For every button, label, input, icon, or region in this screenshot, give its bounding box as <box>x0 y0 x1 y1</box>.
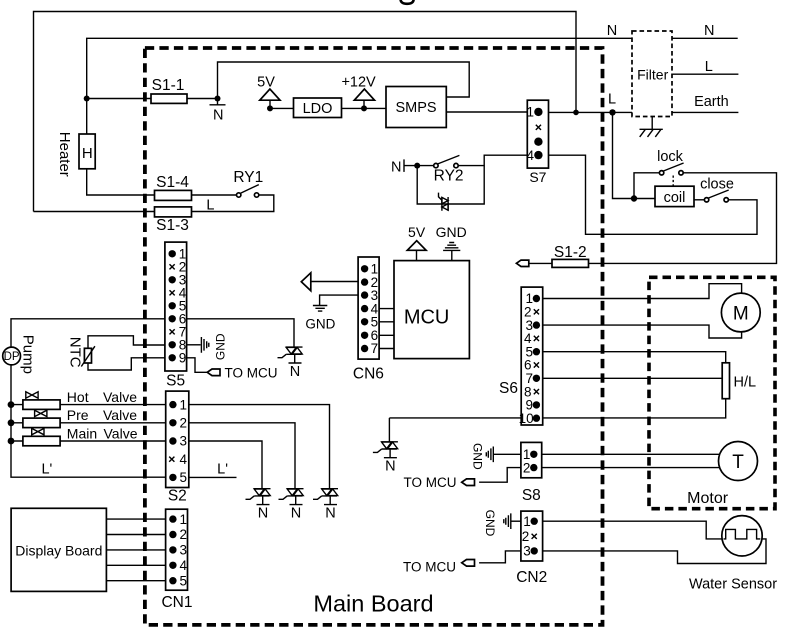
wire S1-2 to tag <box>529 262 552 264</box>
svg-text:L': L' <box>217 461 228 477</box>
svg-text:N: N <box>325 505 335 521</box>
wire CN6 pin3 to ground <box>320 295 359 305</box>
wire hot valve line <box>11 404 166 406</box>
ground at CN2 pin1 (rotated) <box>504 513 521 529</box>
svg-text:1: 1 <box>180 397 188 412</box>
svg-text:Main Board: Main Board <box>313 591 433 617</box>
wire CN2 pin3 to water sensor right <box>543 539 766 564</box>
svg-text:Pump: Pump <box>20 335 37 374</box>
fuse S1-4 <box>155 190 192 200</box>
wire lock branch <box>634 173 660 199</box>
svg-text:3: 3 <box>523 544 531 559</box>
svg-text:Earth: Earth <box>694 94 729 110</box>
pre valve symbol <box>35 410 47 416</box>
node RY2 junction <box>414 163 420 169</box>
switch close contacts and lever <box>704 198 708 202</box>
node valve junction 1 <box>8 401 15 408</box>
svg-text:9: 9 <box>179 351 187 366</box>
wire N out right <box>672 37 738 39</box>
svg-text:M: M <box>733 304 749 325</box>
svg-text:2: 2 <box>522 529 530 544</box>
node L junction 1 <box>573 110 579 116</box>
coil box <box>655 186 694 206</box>
svg-text:GND: GND <box>471 443 485 470</box>
svg-text:coil: coil <box>664 190 686 206</box>
svg-text:L: L <box>608 91 616 107</box>
wires CN6 pins4-7 to MCU <box>379 309 394 349</box>
svg-text:H/L: H/L <box>734 375 757 391</box>
svg-text:S1-2: S1-2 <box>554 244 587 261</box>
fuse S1-3 <box>155 207 192 217</box>
svg-text:N: N <box>391 160 401 176</box>
node N stub junction <box>215 96 221 102</box>
node coil/lock junction <box>631 195 637 201</box>
svg-text:N: N <box>258 505 268 521</box>
node heater/S1-1 junction <box>84 96 90 102</box>
svg-text:1: 1 <box>526 105 534 120</box>
svg-text:TO MCU: TO MCU <box>404 475 457 490</box>
tag TO MCU at S8 <box>462 479 475 486</box>
wire neutral loop to SMPS <box>218 62 470 99</box>
main valve coil <box>23 436 60 446</box>
wire S8 pin2 to MCU tag <box>479 468 521 483</box>
svg-text:3: 3 <box>180 434 188 449</box>
triac T2 <box>279 489 304 505</box>
svg-text:LDO: LDO <box>303 101 333 117</box>
svg-text:N: N <box>704 23 714 39</box>
wire RY2 feed <box>404 165 434 167</box>
+12V rail symbol <box>363 100 365 108</box>
N terminal at S1-1 <box>210 99 226 105</box>
hot valve symbol <box>26 392 38 398</box>
tag TO MCU at CN2 <box>462 560 475 567</box>
svg-text:GND: GND <box>305 316 335 331</box>
wire S1-1 line <box>87 98 218 100</box>
tag TO MCU at S5 <box>207 369 220 376</box>
filter box (dashed) <box>632 31 672 117</box>
relay RY2 contacts and lever <box>434 163 438 167</box>
svg-text:Hot: Hot <box>67 389 89 405</box>
svg-text:3: 3 <box>180 543 188 558</box>
main board dashed border <box>145 48 603 625</box>
wire CN2 pin3 to MCU tag <box>479 551 521 563</box>
connector S7 <box>527 100 548 168</box>
svg-text:S7: S7 <box>529 169 546 185</box>
connector CN1 <box>166 509 188 590</box>
svg-text:S2: S2 <box>168 487 187 504</box>
svg-text:1: 1 <box>180 512 188 527</box>
wire Earth out right <box>672 111 738 113</box>
svg-text:S6: S6 <box>499 380 518 397</box>
wire SMPS to S7 pin1 <box>446 111 527 113</box>
connector S2 <box>166 391 189 487</box>
wire S1-3 run to RY1 <box>34 195 274 212</box>
svg-text:SMPS: SMPS <box>395 100 436 116</box>
svg-text:7: 7 <box>371 341 379 356</box>
title fragment (cropped letter g) <box>401 0 414 4</box>
wire S7 pin4 to door loop <box>549 155 758 234</box>
svg-text:S8: S8 <box>522 487 541 504</box>
svg-text:GND: GND <box>214 333 228 360</box>
wire triac4 drop <box>388 418 390 442</box>
display board box <box>11 508 106 591</box>
svg-text:Valve: Valve <box>103 407 137 423</box>
motor M circle <box>721 293 760 332</box>
wire S2 pin5 L' <box>189 476 237 478</box>
svg-text:GND: GND <box>483 510 497 537</box>
wire S2 pin2 to triac2 <box>189 423 295 489</box>
pre valve coil <box>23 418 60 428</box>
wire LDO to SMPS <box>342 107 387 109</box>
svg-text:Valve: Valve <box>104 425 138 441</box>
water sensor circle <box>722 516 762 556</box>
relay RY1 contacts and lever <box>237 193 241 197</box>
svg-text:1: 1 <box>523 514 531 529</box>
svg-text:Display Board: Display Board <box>15 543 102 559</box>
water sensor wave symbol <box>724 529 761 539</box>
wire neutral bus to heater <box>87 38 632 134</box>
svg-text:+12V: +12V <box>341 74 376 90</box>
earth ground under filter <box>640 117 663 137</box>
thermistor NTC loop <box>88 336 165 370</box>
connector CN6 <box>358 257 379 359</box>
fuse S1-1 <box>151 94 187 103</box>
motor dashed box <box>649 277 775 508</box>
svg-text:N: N <box>213 108 223 124</box>
wire S6 pin3 to motor M bottom <box>543 325 742 338</box>
wire heater to S1-4 to RY1 <box>87 169 237 195</box>
svg-text:5V: 5V <box>408 224 426 240</box>
triac T4 <box>373 442 398 458</box>
connector S6 <box>519 287 543 426</box>
ground at S8 pin1 (rotated) <box>486 447 521 463</box>
svg-text:NTC: NTC <box>67 337 84 368</box>
svg-text:Water Sensor: Water Sensor <box>689 577 777 593</box>
svg-text:RY2: RY2 <box>434 167 464 184</box>
wire lock to S1-2 return <box>589 173 777 264</box>
svg-text:S1-3: S1-3 <box>156 217 189 234</box>
triac across RY2 (horizontal) <box>439 193 449 211</box>
svg-text:S1-1: S1-1 <box>152 77 185 94</box>
thermostat T circle <box>719 442 758 481</box>
hot valve coil <box>23 400 60 410</box>
heater H <box>79 134 95 169</box>
svg-text:N: N <box>607 23 617 39</box>
svg-text:Pre: Pre <box>67 407 89 423</box>
wire pump to L' bus <box>11 365 166 477</box>
svg-text:4: 4 <box>180 452 188 467</box>
svg-text:L: L <box>705 59 713 75</box>
wires S8 to thermostat T <box>542 454 720 467</box>
svg-text:Filter: Filter <box>637 66 668 82</box>
wire S5 pin6 to pump <box>11 319 165 347</box>
wire CN6 pin2 with open arrow <box>311 281 358 283</box>
svg-text:GND: GND <box>436 224 467 240</box>
wire S7 pin1 to Filter L <box>549 111 633 113</box>
wire main valve line <box>11 440 166 442</box>
node valve junction 2 <box>8 419 15 426</box>
wire RY2 snubber loop <box>417 166 484 204</box>
svg-text:RY1: RY1 <box>233 169 263 186</box>
wire pre valve line <box>11 422 166 424</box>
tag S1-2 cable end <box>516 260 528 266</box>
svg-text:N: N <box>290 364 300 380</box>
svg-text:MCU: MCU <box>404 307 450 329</box>
wire L drop to coil <box>613 112 656 198</box>
wire 5V to LDO <box>270 107 294 109</box>
wire S5 pin6 to triac <box>187 319 294 347</box>
fuse S1-2 <box>552 259 589 267</box>
svg-text:L: L <box>206 197 214 213</box>
svg-text:DP: DP <box>4 351 20 363</box>
svg-text:TO MCU: TO MCU <box>403 560 456 575</box>
pump circle DP <box>3 347 21 365</box>
svg-text:Main: Main <box>67 425 97 441</box>
svg-text:L': L' <box>41 462 52 478</box>
svg-text:2: 2 <box>180 416 188 431</box>
triac at S5 pin6 <box>278 347 303 363</box>
wire S2 pin3 to triac1 <box>189 441 262 489</box>
MCU box <box>394 261 469 359</box>
svg-text:Heater: Heater <box>56 132 73 177</box>
wire S2 pin1 to triac3 <box>189 405 330 489</box>
svg-text:2: 2 <box>180 527 188 542</box>
main valve symbol <box>32 428 44 434</box>
wire CN2 pin1 to water sensor <box>543 521 723 539</box>
svg-text:T: T <box>732 452 744 473</box>
wire L out right <box>672 73 738 75</box>
node L junction 2 <box>609 109 615 115</box>
wire S6 pin1 to motor M top <box>543 284 742 299</box>
svg-text:5: 5 <box>180 470 188 485</box>
triac T3 <box>313 489 338 505</box>
svg-text:4: 4 <box>526 148 534 163</box>
svg-text:N: N <box>291 505 301 521</box>
node valve junction 3 <box>8 438 15 445</box>
wire live L loop (outer) <box>34 12 577 212</box>
5V rail symbol at LDO <box>269 100 271 108</box>
svg-text:5: 5 <box>180 573 188 588</box>
wire S6 pin7 to H/L mid <box>543 377 723 379</box>
GND rail at MCU <box>443 243 460 261</box>
svg-text:N: N <box>385 459 395 475</box>
resistor H/L <box>722 363 729 399</box>
wire S6 pin5 to H/L top <box>543 352 726 363</box>
svg-text:lock: lock <box>657 149 684 165</box>
svg-text:Motor: Motor <box>687 490 729 507</box>
regulator LDO <box>294 98 342 118</box>
svg-text:S1-4: S1-4 <box>156 174 189 191</box>
svg-text:4: 4 <box>180 558 188 573</box>
ground at CN6 pin3 <box>313 306 327 312</box>
ground at S5 pin8 (rotated) <box>187 337 209 353</box>
wire S5 pin9 to MCU tag <box>187 358 208 373</box>
connector S8 <box>521 442 542 477</box>
svg-text:5V: 5V <box>257 74 275 90</box>
svg-text:H: H <box>82 145 93 162</box>
wires display board to CN1 <box>106 519 165 581</box>
wire RY2 to S7 pin4 <box>458 155 527 165</box>
svg-text:CN6: CN6 <box>353 366 384 383</box>
connector S5 <box>165 242 187 371</box>
power supply SMPS <box>386 87 446 128</box>
wire S6 pin10 line with triac tap <box>389 399 725 418</box>
switch lock contacts and lever <box>659 171 663 175</box>
mechanical link lock-coil (dotted) <box>672 176 674 187</box>
svg-text:Valve: Valve <box>103 389 137 405</box>
wire coil to close <box>694 199 705 201</box>
svg-text:TO MCU: TO MCU <box>225 366 278 381</box>
triac T1 <box>246 489 271 505</box>
svg-text:close: close <box>700 176 734 192</box>
connector CN2 <box>521 511 543 561</box>
5V rail at MCU <box>416 250 418 260</box>
NTC element <box>84 348 91 363</box>
svg-text:2: 2 <box>523 460 531 475</box>
svg-text:S5: S5 <box>166 372 185 389</box>
svg-text:CN1: CN1 <box>161 594 192 611</box>
svg-text:CN2: CN2 <box>516 569 547 586</box>
